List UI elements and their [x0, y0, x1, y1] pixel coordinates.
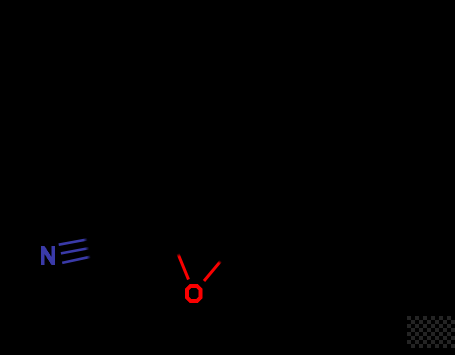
phenyl ring C4-C9 (black carbon skeleton, invisible on black) — [163, 40, 338, 176]
bond C3-O1, carbon-side half (black) — [220, 244, 236, 263]
bond C2-O1, oxygen-side half (red) — [178, 254, 189, 280]
bond C1-C2 (black) — [110, 232, 170, 244]
bond C3-O1, oxygen-side half (red) — [204, 261, 221, 281]
bond C2-O1, carbon-side half (black) — [170, 232, 180, 255]
triple bond C1#N1, carbon-side halves (black) — [84, 236, 111, 258]
atom label O1 (oxirane oxygen, red) — [185, 284, 202, 303]
triple bond C1#N1, nitrogen-side halves (blue) — [59, 239, 91, 263]
atom label N1 (nitrile nitrogen, blue) — [41, 246, 55, 265]
aromatic double bond C7=C8 inner line — [292, 98, 318, 156]
aromatic double bond C9=C4 inner line — [176, 140, 212, 163]
bond C2-C4 phenyl attachment (black) — [163, 133, 170, 232]
aromatic double bond C5=C6 inner line — [207, 55, 268, 68]
bond C2-C3 oxirane edge (black) — [170, 232, 235, 244]
